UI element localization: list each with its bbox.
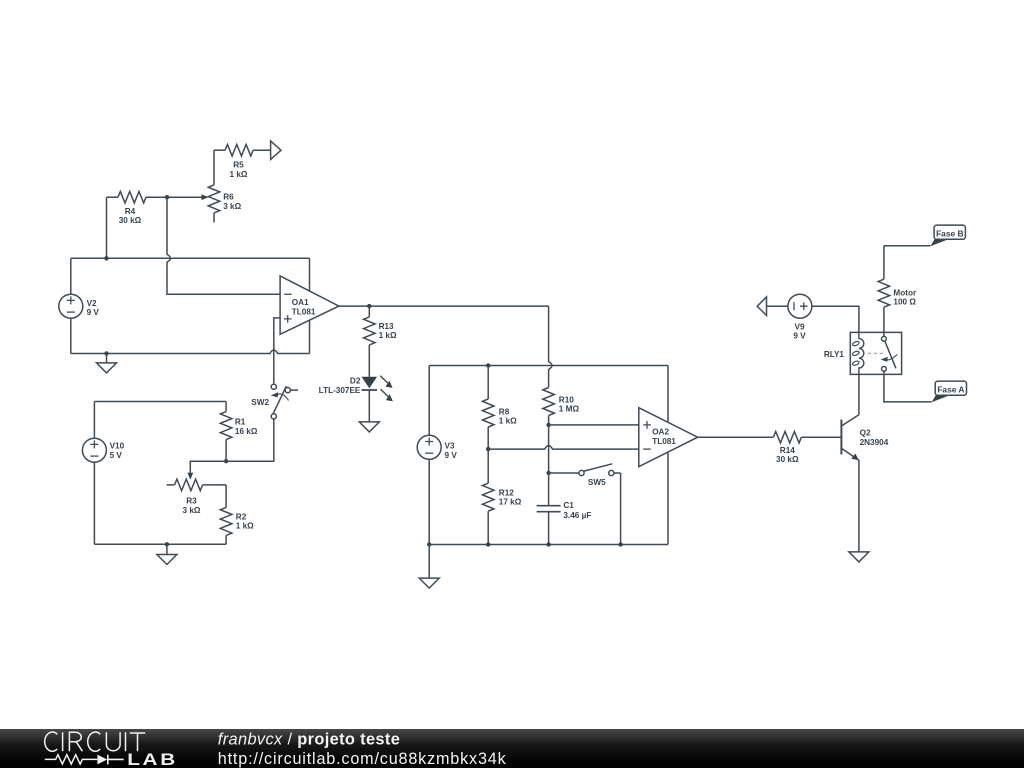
ground V3 (419, 545, 439, 589)
svg-text:R8: R8 (499, 407, 510, 416)
wire V3 top rail (429, 365, 668, 367)
wire V3 top lead (428, 366, 430, 436)
voltage source V9 (788, 294, 812, 318)
wire SW5 right down to rail (620, 473, 622, 545)
resistor Motor 100ohm (878, 246, 890, 333)
wire OA2 output (698, 436, 774, 438)
op-amp OA2 (639, 408, 698, 467)
logo wordmark CIRCUIT (thin geometric strokes) (45, 732, 145, 751)
wire Q2 collector up to relay (858, 374, 860, 414)
svg-text:OA1: OA1 (292, 298, 309, 307)
voltage source V10 (82, 438, 106, 462)
switch SW5 terminal right (609, 470, 621, 475)
logo resistor symbol (45, 755, 98, 764)
label V10 (110, 442, 125, 460)
wire SW2 bottom to R1 node (226, 419, 274, 461)
svg-text:3.46 µF: 3.46 µF (563, 511, 591, 520)
resistor R8 1k (482, 366, 494, 450)
wire R5-R6 (213, 150, 215, 185)
label R5 (230, 161, 248, 179)
wire V9 plus to relay coil (812, 306, 859, 332)
node R12 bottom (486, 542, 490, 546)
switch SW2 terminal bottom (271, 414, 276, 419)
switch SW2 lever (273, 386, 286, 414)
svg-text:16 kΩ: 16 kΩ (235, 427, 258, 436)
label R3 (183, 497, 201, 515)
switch SW2 toggle arrow (271, 392, 289, 400)
svg-text:R1: R1 (235, 418, 246, 427)
wire OA2 non-inverting input (549, 424, 639, 426)
svg-text:SW5: SW5 (588, 478, 606, 487)
flag at R5 output (271, 141, 281, 160)
node SW5 bottom (618, 542, 622, 546)
resistor R13 1k (364, 306, 376, 377)
svg-text:LTL-307EE: LTL-307EE (319, 386, 361, 395)
ground Q2 (849, 552, 869, 562)
relay RLY1 box (850, 332, 901, 374)
switch SW5 terminal left (579, 470, 584, 475)
switch SW2 terminal top (271, 384, 276, 389)
node R8 top (486, 363, 490, 367)
potentiometer R6 3k (208, 185, 220, 223)
svg-text:R4: R4 (125, 207, 136, 216)
relay RLY1 coil (852, 332, 864, 374)
svg-text:17 kΩ: 17 kΩ (499, 498, 522, 507)
wire V3 bottom rail (429, 544, 668, 546)
label Motor (893, 288, 917, 306)
svg-text:30 kΩ: 30 kΩ (119, 216, 142, 225)
svg-text:5 V: 5 V (110, 451, 123, 460)
label D2 (319, 376, 361, 395)
svg-text:TL081: TL081 (652, 437, 676, 446)
ground V2 loop (97, 354, 117, 373)
svg-text:1 kΩ: 1 kΩ (236, 522, 254, 531)
wire V10 bottom lead (93, 462, 95, 544)
resistor R2 1k (220, 485, 232, 544)
wire right rail V2 loop (309, 258, 311, 353)
svg-text:Q2: Q2 (860, 429, 871, 438)
svg-text:R10: R10 (559, 395, 574, 404)
resistor R12 17k (482, 449, 494, 544)
node R8-R12 junction (486, 447, 490, 451)
svg-text:RLY1: RLY1 (824, 350, 845, 359)
wire R10 feed from OA1 output (hop over rail) (549, 306, 552, 387)
wire V10 top lead (93, 402, 95, 439)
svg-text:V10: V10 (110, 442, 125, 451)
transistor Q2 2N3904 (841, 415, 859, 460)
svg-text:TL081: TL081 (292, 308, 316, 317)
flag Fase B (930, 225, 965, 246)
R3 wiper arrow (187, 473, 193, 480)
relay RLY1 switch lever (885, 341, 896, 368)
label R8 (499, 407, 517, 425)
capacitor C1 (537, 473, 561, 545)
svg-text:R2: R2 (236, 512, 247, 521)
label R10 (559, 395, 580, 413)
wire Q2 emitter to ground (858, 460, 860, 552)
wire R4 left branch down (106, 197, 108, 258)
resistor R14 30k (773, 431, 841, 443)
wire V3 bottom lead (428, 459, 430, 544)
svg-text:D2: D2 (350, 376, 361, 385)
svg-text:9 V: 9 V (793, 332, 806, 341)
wire relay to Fase A flag (884, 374, 932, 402)
svg-text:Motor: Motor (893, 288, 917, 297)
LED D2 (362, 377, 378, 390)
wire right rail V3 loop (667, 366, 669, 545)
svg-text:R3: R3 (186, 497, 197, 506)
R6 wiper arrow (167, 194, 208, 200)
svg-text:1 kΩ: 1 kΩ (230, 170, 248, 179)
wire top rail V2 loop (71, 257, 310, 259)
svg-text:9 V: 9 V (87, 308, 100, 317)
svg-text:SW2: SW2 (251, 398, 269, 407)
svg-text:R13: R13 (379, 322, 394, 331)
node C1-SW5 junction (546, 471, 550, 475)
svg-text:100 Ω: 100 Ω (893, 298, 916, 307)
label SW5 (588, 478, 606, 487)
svg-text:V3: V3 (445, 442, 455, 451)
resistor R10 1M (543, 388, 555, 425)
label V9 (793, 322, 806, 340)
voltage source V3 (417, 435, 441, 459)
node ground junction V10 rail (165, 542, 169, 546)
op-amp OA1 (280, 276, 339, 334)
svg-text:V2: V2 (87, 299, 97, 308)
wire OA2 inverting input line with hop (488, 446, 639, 450)
label R13 (379, 322, 397, 340)
label R6 (223, 193, 241, 211)
label Q2 (860, 429, 889, 447)
svg-text:V9: V9 (794, 322, 804, 331)
flag at V9 minus (757, 297, 766, 316)
resistor R1 16k (220, 402, 232, 462)
wire bottom rail V2 loop with hop (71, 350, 310, 354)
wire OA1 inverting input from R4/R6 node (hop over rail) (167, 197, 280, 294)
svg-text:1 MΩ: 1 MΩ (559, 405, 580, 414)
voltage source V2 (59, 294, 83, 318)
relay RLY1 switch contacts (882, 332, 887, 374)
node R1-SW2-R3 junction (224, 459, 228, 463)
label R1 (235, 418, 258, 436)
wire D2 cathode to ground (368, 390, 370, 422)
svg-text:OA2: OA2 (652, 428, 669, 437)
footer bar (0, 729, 1024, 768)
svg-text:Fase A: Fase A (937, 385, 964, 395)
wire to SW5 (549, 472, 579, 474)
label V3 (445, 442, 458, 460)
logo diode symbol (97, 755, 107, 765)
svg-text:C1: C1 (563, 501, 574, 510)
wire OA1 non-inverting input to SW2 (274, 318, 280, 383)
switch SW5 lever (584, 464, 612, 471)
svg-text:2N3904: 2N3904 (860, 438, 889, 447)
wire flag to V9 (767, 305, 788, 307)
svg-text:3 kΩ: 3 kΩ (223, 202, 241, 211)
node R4-R6 junction (165, 195, 169, 199)
svg-text:1 kΩ: 1 kΩ (499, 417, 517, 426)
resistor R5 (214, 144, 271, 156)
svg-text:9 V: 9 V (445, 451, 458, 460)
svg-text:30 kΩ: 30 kΩ (776, 455, 799, 464)
label R14 (776, 446, 799, 464)
CircuitLab logo (0, 725, 200, 768)
wire V2 top lead (70, 258, 72, 294)
label SW2 (251, 398, 269, 407)
potentiometer R3 3k (167, 479, 227, 491)
svg-text:R6: R6 (223, 193, 234, 202)
label OA1 (292, 298, 316, 316)
LED D2 light arrows (380, 376, 393, 402)
wire R10 node down to C1/SW5 (548, 425, 550, 473)
relay RLY1 dashed link (868, 352, 887, 354)
node ground junction V2 loop (104, 351, 108, 355)
label R12 (499, 489, 522, 507)
wire OA1 output (339, 305, 549, 307)
node C1 bottom (546, 542, 550, 546)
flag Fase A (932, 381, 967, 402)
label OA2 (652, 428, 676, 446)
svg-text:franbvcx / projeto teste: franbvcx / projeto teste (218, 730, 400, 748)
node V3 ground junction (427, 542, 431, 546)
svg-text:R14: R14 (780, 446, 795, 455)
wire motor to Fase B flag (884, 245, 931, 247)
resistor R4 30k (107, 191, 168, 203)
svg-text:http://circuitlab.com/cu88kzmb: http://circuitlab.com/cu88kzmbkx34k (218, 750, 507, 768)
relay RLY1 arrow (881, 354, 898, 361)
wire node to R3 wiper (190, 461, 226, 474)
wire V10 bottom rail (94, 543, 226, 545)
svg-text:R12: R12 (499, 489, 514, 498)
node rail-R4 (104, 256, 108, 260)
switch SW2 terminal right (285, 388, 298, 393)
svg-text:Fase B: Fase B (936, 229, 963, 239)
node OA1 output-R13 (367, 304, 371, 308)
svg-text:1 kΩ: 1 kΩ (379, 331, 397, 340)
footer project text (0, 725, 600, 768)
wire V10 top rail (94, 401, 226, 403)
label C1 (563, 501, 591, 520)
ground V10 rail (157, 544, 177, 564)
ground D2 (359, 422, 379, 432)
label V2 (87, 299, 100, 317)
label RLY1 (824, 350, 845, 359)
label R4 (119, 207, 142, 225)
wire V2 bottom lead (70, 318, 72, 353)
svg-text:3 kΩ: 3 kΩ (183, 506, 201, 515)
node R10-OA2+ junction (546, 423, 550, 427)
label R2 (236, 512, 254, 530)
svg-text:R5: R5 (233, 161, 244, 170)
